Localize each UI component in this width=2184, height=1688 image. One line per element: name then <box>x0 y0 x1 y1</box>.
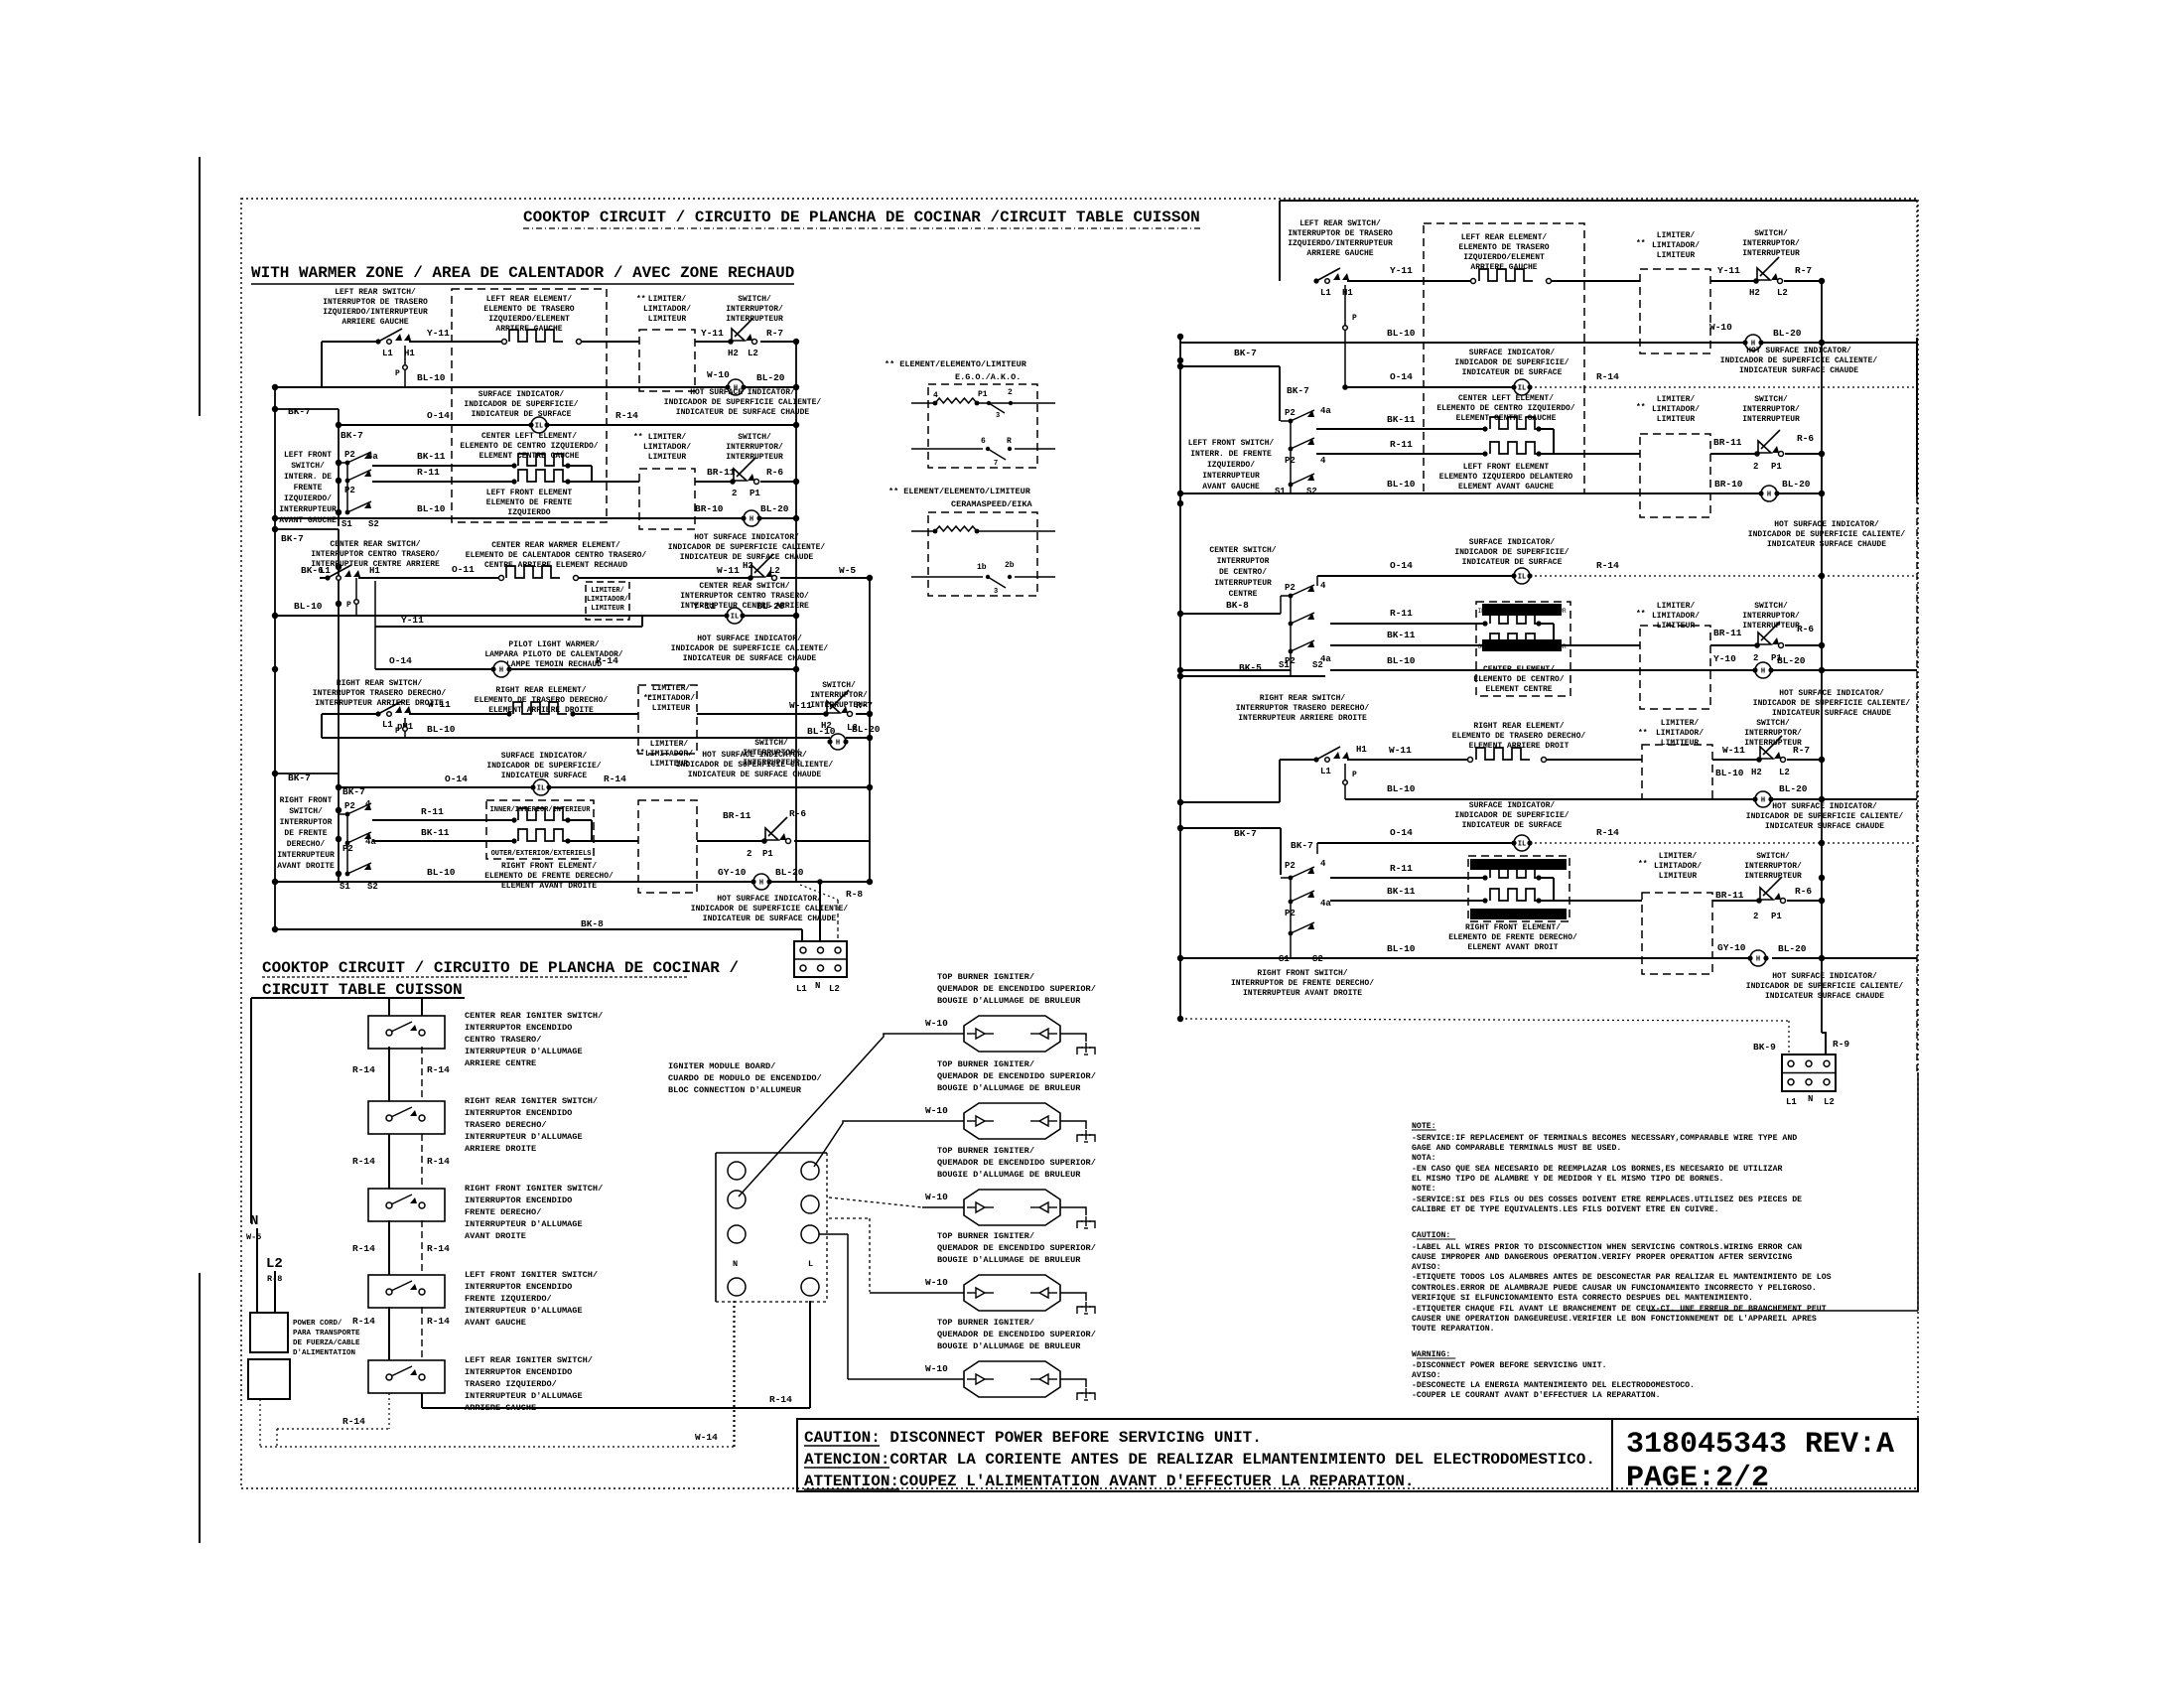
svg-text:W-10: W-10 <box>925 1105 948 1116</box>
wire R-row6 BL-10 <box>1180 492 1761 494</box>
svg-text:BL-10: BL-10 <box>1387 783 1416 794</box>
svg-text:LIMITADOR/: LIMITADOR/ <box>1656 729 1704 738</box>
legend2 wire2 <box>911 576 983 578</box>
switch left rear L1 H1 <box>375 339 380 344</box>
svg-text:LIMITER/: LIMITER/ <box>652 684 691 693</box>
svg-text:HOT SURFACE INDICATOR/: HOT SURFACE INDICATOR/ <box>1779 689 1884 698</box>
svg-text:BLOC CONNECTION D'ALLUMEUR: BLOC CONNECTION D'ALLUMEUR <box>668 1085 802 1095</box>
svg-text:-ETIQUETER CHAQUE FIL AVANT LE: -ETIQUETER CHAQUE FIL AVANT LE BRANCHEME… <box>1412 1305 1827 1314</box>
svg-text:**: ** <box>1638 729 1648 738</box>
thermal switch row8 <box>748 575 753 581</box>
svg-text:ELEMENT AVANT DROITE: ELEMENT AVANT DROITE <box>501 882 597 891</box>
hot surface indicator row18 <box>753 874 769 890</box>
svg-text:GAGE AND COMPARABLE TERMINALS: GAGE AND COMPARABLE TERMINALS MUST BE US… <box>1412 1144 1621 1153</box>
svg-text:INDICADOR DE SUPERFICIE CALIEN: INDICADOR DE SUPERFICIE CALIENTE/ <box>1746 982 1904 991</box>
svg-text:2: 2 <box>747 849 751 859</box>
svg-text:INDICADOR DE SUPERFICIE CALIEN: INDICADOR DE SUPERFICIE CALIENTE/ <box>668 543 826 552</box>
svg-text:INTERRUPTOR/: INTERRUPTOR/ <box>743 749 800 758</box>
svg-text:COOKTOP CIRCUIT / CIRCUITO DE: COOKTOP CIRCUIT / CIRCUITO DE PLANCHA DE… <box>262 959 739 977</box>
svg-text:IL: IL <box>731 614 739 622</box>
svg-text:INDICATEUR SURFACE CHAUDE: INDICATEUR SURFACE CHAUDE <box>1765 822 1884 831</box>
svg-text:BR-11: BR-11 <box>1713 437 1742 448</box>
chain left wire <box>388 998 390 1016</box>
svg-text:Y-11: Y-11 <box>401 615 424 626</box>
svg-text:CENTER SWITCH/: CENTER SWITCH/ <box>1209 546 1276 555</box>
svg-text:L1: L1 <box>382 720 393 730</box>
svg-text:FRENTE: FRENTE <box>294 484 323 492</box>
warmer hot indicator <box>727 608 743 624</box>
svg-text:TOP BURNER IGNITER/: TOP BURNER IGNITER/ <box>937 972 1034 982</box>
svg-text:L1: L1 <box>796 984 807 994</box>
svg-text:AVANT DROITE: AVANT DROITE <box>277 862 335 871</box>
surface indicator circle row3 <box>531 417 547 433</box>
svg-text:BL-10: BL-10 <box>427 724 456 735</box>
outer element <box>511 838 516 843</box>
svg-text:R-14: R-14 <box>427 1243 450 1254</box>
svg-text:ELEMENTO DE TRASERO: ELEMENTO DE TRASERO <box>1458 243 1549 252</box>
svg-text:INTERRUPTOR/: INTERRUPTOR/ <box>810 691 868 700</box>
svg-text:DERECHO/: DERECHO/ <box>287 840 326 849</box>
svg-text:H: H <box>499 667 503 675</box>
svg-text:BR-11: BR-11 <box>1713 628 1742 638</box>
svg-text:LIMITER/: LIMITER/ <box>591 587 624 595</box>
svg-text:L1: L1 <box>320 566 331 576</box>
igniter output wire 3 <box>1060 1207 1086 1215</box>
svg-text:BOUGIE D'ALLUMAGE DE BRULEUR: BOUGIE D'ALLUMAGE DE BRULEUR <box>937 996 1081 1006</box>
svg-text:HOT SURFACE INDICATOR/: HOT SURFACE INDICATOR/ <box>697 634 802 643</box>
center outer label inverse <box>1482 639 1562 651</box>
wire row3 O-14 <box>339 424 531 426</box>
svg-text:INTERRUPTOR/: INTERRUPTOR/ <box>1744 729 1802 738</box>
module board pins <box>728 1162 746 1180</box>
wire R-row3 O-14 <box>1345 386 1514 388</box>
svg-text:PARA TRANSPORTE: PARA TRANSPORTE <box>293 1330 360 1337</box>
chain R-14 bottom dotted <box>388 1393 390 1429</box>
svg-text:INTERR. DE: INTERR. DE <box>284 473 332 482</box>
svg-text:R-14: R-14 <box>615 410 638 421</box>
svg-text:H1: H1 <box>369 566 380 576</box>
svg-text:2: 2 <box>1753 653 1758 663</box>
svg-text:VERIFIQUE SI ELFUNCIONAMIENTO: VERIFIQUE SI ELFUNCIONAMIENTO ESTA CORRE… <box>1412 1294 1753 1303</box>
thermal switch row5 <box>730 479 736 485</box>
svg-text:FRENTE DERECHO/: FRENTE DERECHO/ <box>465 1207 541 1217</box>
wire R-row2 BL-10 <box>1344 285 1346 387</box>
svg-text:BL-10: BL-10 <box>807 726 836 737</box>
svg-text:IZQUIERDO/INTERRUPTEUR: IZQUIERDO/INTERRUPTEUR <box>1288 239 1393 248</box>
svg-text:SWITCH/: SWITCH/ <box>1756 852 1790 861</box>
svg-text:DE FRENTE: DE FRENTE <box>284 829 327 838</box>
svg-text:P: P <box>395 727 400 736</box>
rf outer label inverse <box>1470 909 1567 919</box>
svg-text:INDICADOR DE SUPERFICIE CALIEN: INDICADOR DE SUPERFICIE CALIENTE/ <box>671 644 829 653</box>
svg-text:BL-20: BL-20 <box>1773 328 1802 339</box>
svg-text:INDICADOR DE SUPERFICIE CALIEN: INDICADOR DE SUPERFICIE CALIENTE/ <box>1753 699 1911 708</box>
svg-text:AVISO:: AVISO: <box>1412 1371 1440 1380</box>
svg-text:INDICATEUR DE SURFACE CHAUDE: INDICATEUR DE SURFACE CHAUDE <box>688 771 822 779</box>
svg-text:P1: P1 <box>1771 462 1782 472</box>
svg-text:SWITCH/: SWITCH/ <box>1756 719 1790 728</box>
svg-text:W-5: W-5 <box>246 1232 261 1242</box>
svg-text:**: ** <box>635 749 645 758</box>
svg-text:P1: P1 <box>1771 912 1782 921</box>
spark electrode 4 <box>1077 1307 1083 1314</box>
svg-text:LIMITADOR/: LIMITADOR/ <box>1652 405 1700 414</box>
svg-text:RIGHT FRONT ELEMENT/: RIGHT FRONT ELEMENT/ <box>501 862 597 871</box>
rf element dashed box <box>1468 856 1570 921</box>
svg-text:LIMITER/: LIMITER/ <box>1657 231 1696 240</box>
svg-text:BL-10: BL-10 <box>1387 328 1416 339</box>
svg-text:BR-11: BR-11 <box>723 810 751 821</box>
svg-text:INTERRUPTOR ENCENDIDO: INTERRUPTOR ENCENDIDO <box>465 1108 572 1118</box>
svg-text:INTERRUPTEUR: INTERRUPTEUR <box>1744 872 1802 881</box>
svg-text:ELEMENT CENTRE GAUCHE: ELEMENT CENTRE GAUCHE <box>479 452 580 461</box>
svg-text:LIMITER/: LIMITER/ <box>1657 395 1696 404</box>
wire R-row13 O-14 <box>1180 801 1280 803</box>
svg-text:BK-7: BK-7 <box>1234 828 1257 839</box>
svg-text:BOUGIE D'ALLUMAGE DE BRULEUR: BOUGIE D'ALLUMAGE DE BRULEUR <box>937 1170 1081 1180</box>
svg-text:TOP BURNER IGNITER/: TOP BURNER IGNITER/ <box>937 1059 1034 1069</box>
svg-text:H1: H1 <box>1342 288 1353 298</box>
svg-text:CENTRO TRASERO/: CENTRO TRASERO/ <box>465 1035 541 1045</box>
svg-text:BR-11: BR-11 <box>1715 890 1744 901</box>
module to igniter 1 wire <box>739 1034 964 1196</box>
svg-text:4a: 4a <box>1320 899 1331 909</box>
svg-text:S2: S2 <box>367 882 378 892</box>
svg-text:** ELEMENT/ELEMENTO/LIMITEUR: ** ELEMENT/ELEMENTO/LIMITEUR <box>888 487 1031 496</box>
thermal switch row16 <box>761 838 767 844</box>
left front element R <box>1482 451 1487 456</box>
svg-text:SURFACE INDICATOR/: SURFACE INDICATOR/ <box>1469 538 1556 547</box>
svg-text:P1: P1 <box>762 849 773 859</box>
svg-text:TOP BURNER IGNITER/: TOP BURNER IGNITER/ <box>937 1318 1034 1328</box>
svg-text:SWITCH/: SWITCH/ <box>1754 602 1788 611</box>
svg-text:LIMITEUR: LIMITEUR <box>1661 739 1700 748</box>
bus inner lower R <box>1280 828 1282 875</box>
svg-text:R-9: R-9 <box>1833 1039 1849 1050</box>
igniter switch box 4 <box>368 1275 445 1308</box>
svg-text:AVANT GAUCHE: AVANT GAUCHE <box>465 1318 526 1328</box>
svg-text:CERAMASPEED/EIKA: CERAMASPEED/EIKA <box>951 499 1033 509</box>
wire row8 O-11 warmer <box>338 566 340 568</box>
svg-text:INTERRUPTOR DE TRASERO: INTERRUPTOR DE TRASERO <box>323 298 428 307</box>
svg-text:IL: IL <box>1518 574 1526 582</box>
svg-text:2: 2 <box>732 489 737 498</box>
svg-text:-DESCONECTE LA ENERGIA MANTENI: -DESCONECTE LA ENERGIA MANTENIMIENTO DEL… <box>1412 1381 1695 1390</box>
svg-text:-ETIQUETE TODOS LOS ALAMBRES A: -ETIQUETE TODOS LOS ALAMBRES ANTES DE DE… <box>1412 1273 1832 1282</box>
svg-text:H: H <box>836 740 840 748</box>
svg-text:INTERRUPTOR/: INTERRUPTOR/ <box>1742 239 1800 248</box>
svg-text:TRASERO DERECHO/: TRASERO DERECHO/ <box>465 1120 547 1130</box>
burner igniter octagon 2 <box>964 1103 1060 1139</box>
hot surface indicator row13 <box>830 734 846 750</box>
svg-text:INTERRUPTEUR: INTERRUPTEUR <box>1742 622 1800 631</box>
terminal block 1 leads <box>801 929 803 941</box>
limiter box R1 <box>1640 269 1710 353</box>
svg-text:6: 6 <box>981 437 986 446</box>
svg-text:ELEMENTO DE CALENTADOR CENTRO: ELEMENTO DE CALENTADOR CENTRO TRASERO/ <box>466 551 647 560</box>
svg-text:IGNITER MODULE BOARD/: IGNITER MODULE BOARD/ <box>668 1061 775 1071</box>
svg-text:H2: H2 <box>743 561 753 571</box>
svg-text:LIMITER/: LIMITER/ <box>1657 602 1696 611</box>
power cord box 1 <box>250 1313 288 1352</box>
svg-text:TOUTE REPARATION.: TOUTE REPARATION. <box>1412 1325 1495 1334</box>
thermal switch row12 <box>823 711 829 717</box>
svg-text:LEFT FRONT: LEFT FRONT <box>284 451 332 460</box>
svg-text:**: ** <box>1638 860 1648 869</box>
svg-text:RIGHT REAR ELEMENT/: RIGHT REAR ELEMENT/ <box>1473 722 1564 731</box>
sheet frame border <box>241 199 1918 1488</box>
svg-text:EL MISMO TIPO DE ALAMBRE Y DE: EL MISMO TIPO DE ALAMBRE Y DE MEDIDOR Y … <box>1412 1175 1723 1184</box>
svg-text:BK-11: BK-11 <box>1387 630 1416 640</box>
svg-text:INTERRUPTOR DE TRASERO: INTERRUPTOR DE TRASERO <box>1288 229 1393 238</box>
svg-text:W-10: W-10 <box>1709 322 1732 333</box>
svg-text:HOT SURFACE INDICATOR/: HOT SURFACE INDICATOR/ <box>1772 972 1877 981</box>
svg-text:INTERRUPTEUR: INTERRUPTEUR <box>1202 472 1260 481</box>
svg-text:HOT SURFACE INDICATOR/: HOT SURFACE INDICATOR/ <box>1746 347 1851 355</box>
svg-text:COOKTOP CIRCUIT / CIRCUITO DE: COOKTOP CIRCUIT / CIRCUITO DE PLANCHA DE… <box>523 209 1200 226</box>
svg-text:P: P <box>346 601 351 610</box>
svg-text:ARRIERE CENTRE: ARRIERE CENTRE <box>465 1058 536 1068</box>
svg-text:QUEMADOR DE ENCENDIDO SUPERIOR: QUEMADOR DE ENCENDIDO SUPERIOR/ <box>937 1071 1096 1081</box>
svg-text:S1: S1 <box>1275 487 1286 496</box>
svg-text:LIMITER/: LIMITER/ <box>650 740 689 749</box>
svg-text:INDICATEUR DE SURFACE CHAUDE: INDICATEUR DE SURFACE CHAUDE <box>683 654 817 663</box>
svg-text:-DISCONNECT POWER BEFORE SERVI: -DISCONNECT POWER BEFORE SERVICING UNIT. <box>1412 1361 1607 1370</box>
wire R-row8 R-11 <box>1330 623 1485 625</box>
module to igniter 2 wire <box>814 1121 964 1167</box>
svg-text:LIMITEUR: LIMITEUR <box>1657 251 1696 260</box>
svg-text:BR-10: BR-10 <box>1714 479 1743 490</box>
spark electrode 1 <box>1077 1048 1083 1055</box>
svg-text:QUEMADOR DE ENCENDIDO SUPERIOR: QUEMADOR DE ENCENDIDO SUPERIOR/ <box>937 1243 1096 1253</box>
svg-text:IL: IL <box>1518 841 1526 849</box>
igniter chain top wire <box>250 998 252 1223</box>
svg-text:Y-11: Y-11 <box>1717 265 1740 276</box>
svg-text:ELEMENT AVANT GAUCHE: ELEMENT AVANT GAUCHE <box>1458 483 1554 492</box>
svg-text:INDICADOR DE SUPERFICIE/: INDICADOR DE SUPERFICIE/ <box>486 762 601 771</box>
svg-text:W-10: W-10 <box>925 1192 948 1202</box>
svg-text:SWITCH/: SWITCH/ <box>1754 395 1788 404</box>
svg-text:W-5: W-5 <box>839 565 856 576</box>
svg-text:CIRCUIT TABLE CUISSON: CIRCUIT TABLE CUISSON <box>262 981 463 999</box>
rf inner element <box>1482 875 1487 880</box>
svg-text:BOUGIE D'ALLUMAGE DE BRULEUR: BOUGIE D'ALLUMAGE DE BRULEUR <box>937 1341 1081 1351</box>
wire R-row11 W-11 <box>1280 759 1316 761</box>
svg-text:R-7: R-7 <box>1795 265 1812 276</box>
big dashed element box left <box>452 289 607 522</box>
svg-text:P1: P1 <box>978 390 988 399</box>
svg-text:-COUPER LE COURANT AVANT D'EFF: -COUPER LE COURANT AVANT D'EFFECTUER LA … <box>1412 1390 1661 1400</box>
svg-text:BK-11: BK-11 <box>1387 886 1416 897</box>
bus right collector <box>1821 281 1823 1033</box>
thermal switch R1 <box>1753 278 1759 284</box>
svg-text:INTERRUPTOR: INTERRUPTOR <box>280 818 333 827</box>
svg-text:CENTRE ARRIERE ELEMENT RECHAUD: CENTRE ARRIERE ELEMENT RECHAUD <box>484 561 627 570</box>
module to igniter 3 wire <box>829 1197 922 1207</box>
svg-text:**: ** <box>636 295 646 304</box>
center element dashed box <box>1476 602 1570 696</box>
igniter output wire 4 <box>1060 1293 1086 1301</box>
svg-text:W-10: W-10 <box>707 369 730 380</box>
svg-text:318045343 REV:A: 318045343 REV:A <box>1626 1428 1894 1462</box>
center left element <box>511 463 516 468</box>
svg-text:R-14: R-14 <box>352 1243 375 1254</box>
svg-text:LIMITEUR: LIMITEUR <box>1657 622 1696 631</box>
wire BK-7 top R <box>1180 365 1280 367</box>
svg-text:S1: S1 <box>1279 660 1290 670</box>
rf inner label inverse <box>1470 859 1567 870</box>
svg-text:S2: S2 <box>1312 660 1323 670</box>
svg-text:P2: P2 <box>1285 408 1296 418</box>
wire BK-8 R <box>1180 613 1281 615</box>
svg-text:INTERRUPTOR ENCENDIDO: INTERRUPTOR ENCENDIDO <box>465 1367 572 1377</box>
svg-text:IZQUIERDO/INTERRUPTEUR: IZQUIERDO/INTERRUPTEUR <box>323 308 428 317</box>
wire R-row10 BL-10 <box>1180 669 1291 671</box>
svg-text:BK-7: BK-7 <box>341 430 363 441</box>
svg-text:N: N <box>1808 1094 1813 1104</box>
left rear element symbol <box>502 340 507 345</box>
svg-text:CAUSER UNE OPERATION DANGEUREU: CAUSER UNE OPERATION DANGEUREUSE.VERIFIE… <box>1412 1314 1817 1324</box>
limiter box R3 <box>1640 626 1710 709</box>
svg-text:IL: IL <box>537 785 545 793</box>
svg-text:ELEMENT ARRIERE DROIT: ELEMENT ARRIERE DROIT <box>1469 742 1570 751</box>
svg-text:H1: H1 <box>1356 745 1367 755</box>
legend2 wire1 <box>911 530 935 532</box>
svg-text:INTERRUPTOR ENCENDIDO: INTERRUPTOR ENCENDIDO <box>465 1023 572 1033</box>
bus BK-7 left outer <box>274 387 276 929</box>
svg-text:S1: S1 <box>341 519 352 529</box>
svg-text:**: ** <box>1636 239 1646 248</box>
svg-text:NOTA:: NOTA: <box>1412 1154 1436 1163</box>
svg-text:BOUGIE D'ALLUMAGE DE BRULEUR: BOUGIE D'ALLUMAGE DE BRULEUR <box>937 1083 1081 1093</box>
pilot contact P <box>404 346 406 387</box>
right outer frame wire segment <box>1916 201 1918 338</box>
svg-text:LIMITEUR: LIMITEUR <box>648 315 687 324</box>
svg-text:P2: P2 <box>1285 583 1296 593</box>
svg-text:ARRIERE GAUCHE: ARRIERE GAUCHE <box>1306 249 1373 258</box>
svg-text:SWITCH/: SWITCH/ <box>822 681 856 690</box>
svg-text:4: 4 <box>1320 456 1326 466</box>
svg-text:IZQUIERDO/: IZQUIERDO/ <box>1207 461 1255 470</box>
burner igniter octagon 1 <box>964 1016 1060 1052</box>
svg-text:E.G.O./A.K.O.: E.G.O./A.K.O. <box>955 372 1021 382</box>
wire R-row16 BL-10 <box>1180 957 1756 959</box>
svg-text:LIMITEUR: LIMITEUR <box>591 605 624 613</box>
wire R-row1 Y-11 <box>1313 278 1318 283</box>
burner igniter octagon 4 <box>964 1275 1060 1311</box>
svg-text:INTERRUPTOR: INTERRUPTOR <box>1217 557 1270 566</box>
svg-text:2: 2 <box>1753 912 1758 921</box>
burner igniter octagon 3 <box>964 1190 1060 1225</box>
svg-text:N: N <box>815 981 820 991</box>
thermal switch row1 <box>728 339 734 345</box>
svg-text:L2: L2 <box>769 566 780 576</box>
svg-text:Y-11: Y-11 <box>693 601 716 612</box>
thermal switch R2 <box>1754 451 1760 457</box>
svg-text:-SERVICE:SI DES FILS OU DES CO: -SERVICE:SI DES FILS OU DES COSSES DOIVE… <box>1412 1196 1802 1204</box>
svg-text:-LABEL ALL WIRES PRIOR TO DISC: -LABEL ALL WIRES PRIOR TO DISCONNECTION … <box>1412 1243 1802 1252</box>
svg-text:BL-20: BL-20 <box>1779 783 1808 794</box>
svg-text:INDICATEUR DE SURFACE: INDICATEUR DE SURFACE <box>1462 368 1563 377</box>
svg-text:ELEMENTO DE CENTRO IZQUIERDO/: ELEMENTO DE CENTRO IZQUIERDO/ <box>460 442 598 451</box>
igniter output wire 2 <box>1060 1121 1086 1129</box>
svg-text:L2: L2 <box>1824 1097 1835 1107</box>
svg-text:INDICADOR DE SUPERFICIE CALIEN: INDICADOR DE SUPERFICIE CALIENTE/ <box>1720 356 1878 365</box>
igniter switch box 1 <box>368 1016 445 1049</box>
igniter switch box 5 <box>368 1360 445 1393</box>
svg-text:LEFT REAR IGNITER SWITCH/: LEFT REAR IGNITER SWITCH/ <box>465 1355 593 1365</box>
svg-text:O-11: O-11 <box>452 564 475 575</box>
svg-text:NOTE:: NOTE: <box>1412 1185 1436 1194</box>
svg-text:CENTER LEFT ELEMENT/: CENTER LEFT ELEMENT/ <box>1458 394 1554 403</box>
limiter box R5 <box>1642 893 1712 974</box>
svg-text:BK-11: BK-11 <box>1387 414 1416 425</box>
svg-text:INDICADOR DE SUPERFICIE/: INDICADOR DE SUPERFICIE/ <box>1454 358 1569 367</box>
svg-text:W-14: W-14 <box>695 1432 718 1443</box>
svg-text:CENTER REAR SWITCH/: CENTER REAR SWITCH/ <box>699 582 789 591</box>
svg-text:W-11: W-11 <box>1389 745 1412 756</box>
svg-text:INTERRUPTOR/: INTERRUPTOR/ <box>1744 862 1802 871</box>
svg-text:R-7: R-7 <box>1793 745 1810 756</box>
left front element <box>511 479 516 484</box>
svg-text:RIGHT FRONT SWITCH/: RIGHT FRONT SWITCH/ <box>1257 969 1347 978</box>
inner/outer dashed box <box>486 800 594 859</box>
svg-text:INDICADOR DE SUPERFICIE CALIEN: INDICADOR DE SUPERFICIE CALIENTE/ <box>1746 812 1904 821</box>
svg-text:R-14: R-14 <box>352 1064 375 1075</box>
svg-text:R-14: R-14 <box>342 1416 365 1427</box>
svg-text:BK-7: BK-7 <box>281 533 304 544</box>
power cord bottom leads <box>259 1399 261 1447</box>
svg-text:SWITCH/: SWITCH/ <box>738 433 771 442</box>
svg-text:P2: P2 <box>344 450 355 460</box>
svg-text:BK-7: BK-7 <box>288 406 311 417</box>
svg-text:IZQUIERDO/ELEMENT: IZQUIERDO/ELEMENT <box>1463 253 1545 262</box>
svg-text:RIGHT FRONT IGNITER SWITCH/: RIGHT FRONT IGNITER SWITCH/ <box>465 1184 603 1194</box>
svg-text:ELEMENTO IZQUIERDO DELANTERO: ELEMENTO IZQUIERDO DELANTERO <box>1439 473 1573 482</box>
svg-text:INDICATEUR DE SURFACE CHAUDE: INDICATEUR DE SURFACE CHAUDE <box>676 408 810 417</box>
right rear element R <box>1468 758 1473 763</box>
svg-text:1b: 1b <box>977 563 987 572</box>
terminal block 2 <box>1782 1055 1836 1091</box>
svg-text:BK-8: BK-8 <box>1226 600 1249 611</box>
svg-text:H: H <box>1767 492 1771 499</box>
bus right A <box>795 342 797 882</box>
svg-text:INTERRUPTEUR: INTERRUPTEUR <box>1214 579 1272 588</box>
svg-text:SWITCH/: SWITCH/ <box>754 739 788 748</box>
svg-text:L2: L2 <box>829 984 840 994</box>
svg-text:QUEMADOR DE ENCENDIDO SUPERIOR: QUEMADOR DE ENCENDIDO SUPERIOR/ <box>937 984 1096 994</box>
svg-text:INTERRUPTOR/: INTERRUPTOR/ <box>726 305 783 314</box>
svg-text:P: P <box>1352 314 1357 323</box>
svg-text:LIMITER/: LIMITER/ <box>1661 719 1700 728</box>
limiter box row1 <box>639 330 695 391</box>
svg-text:INNER/INTERIOR/INTERIEUR: INNER/INTERIOR/INTERIEUR <box>490 806 592 814</box>
svg-text:LIMITEUR: LIMITEUR <box>1659 872 1698 881</box>
svg-text:SURFACE INDICATOR/: SURFACE INDICATOR/ <box>501 752 588 761</box>
svg-text:H: H <box>759 880 763 888</box>
terminal block 1 <box>794 941 847 977</box>
svg-text:BL-10: BL-10 <box>294 601 323 612</box>
svg-text:SWITCH/: SWITCH/ <box>291 462 325 471</box>
svg-text:L2: L2 <box>1777 288 1788 298</box>
svg-text:BL-20: BL-20 <box>852 724 881 735</box>
svg-text:O-14: O-14 <box>1390 560 1413 571</box>
svg-text:H: H <box>1761 797 1765 805</box>
svg-text:INTERRUPTEUR ARRIERE DROITE: INTERRUPTEUR ARRIERE DROITE <box>1238 714 1367 723</box>
spark electrode 5 <box>1077 1393 1083 1400</box>
svg-text:W-11: W-11 <box>789 700 812 711</box>
limiter box row16 <box>638 800 697 893</box>
